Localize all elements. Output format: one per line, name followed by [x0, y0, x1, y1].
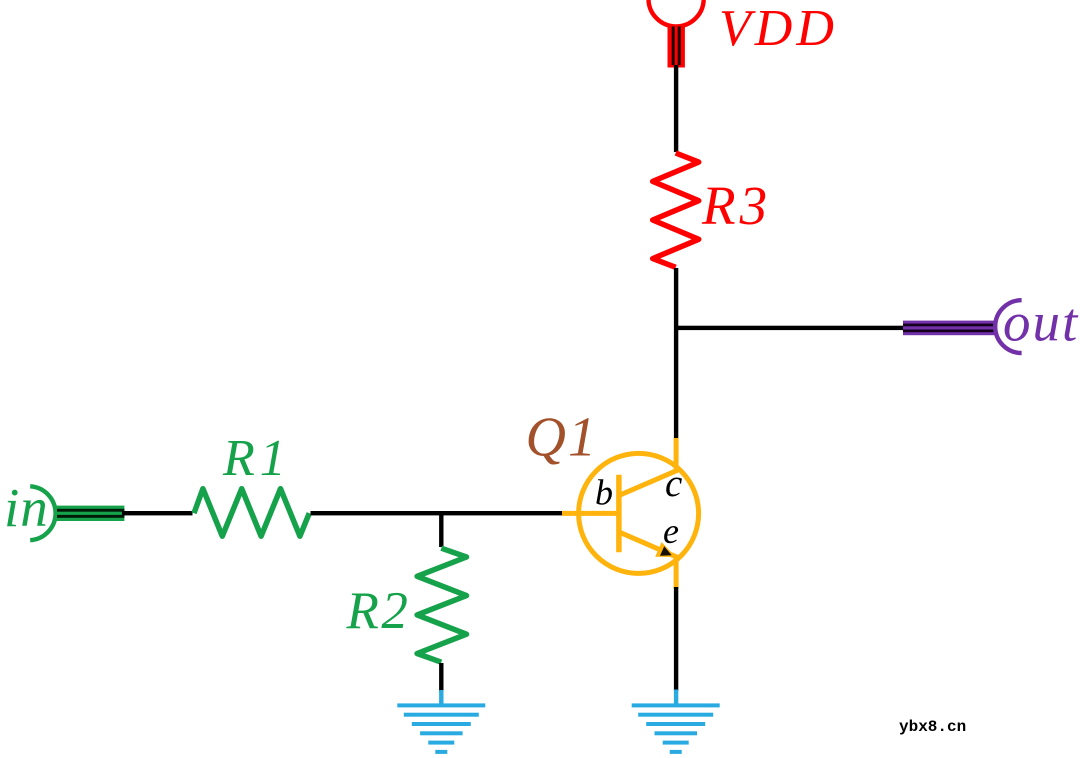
wire R2 to ground — [439, 663, 443, 692]
transistor Q1 — [562, 438, 699, 589]
svg-text:out: out — [1003, 292, 1079, 353]
emitter arrow (amber head) — [655, 542, 676, 557]
resistor R2 — [417, 548, 466, 662]
svg-text:VDD: VDD — [719, 0, 838, 57]
svg-text:in: in — [4, 477, 49, 538]
svg-text:c: c — [665, 462, 682, 505]
wire VDD to R3 — [674, 65, 678, 152]
wire port-in to R1 — [122, 511, 193, 515]
port VDD — [649, 0, 704, 68]
svg-text:R3: R3 — [701, 175, 771, 236]
svg-text:R1: R1 — [222, 430, 291, 487]
emitter arrow (black inner) — [660, 546, 672, 556]
resistor R3 — [653, 153, 699, 267]
wire out horizontal — [674, 326, 904, 330]
port out — [903, 300, 1022, 353]
port in — [30, 486, 124, 540]
wire R3 to collector node — [674, 268, 678, 440]
wire R1 to base (through node at R2 tap) — [311, 511, 564, 515]
resistor R1 — [194, 489, 309, 537]
svg-text:R2: R2 — [346, 582, 411, 640]
ground (left) — [397, 690, 485, 754]
svg-text:ybx8.cn: ybx8.cn — [899, 718, 966, 736]
wire emitter to ground — [674, 587, 678, 691]
wire node to R2 — [439, 512, 443, 547]
ground (right) — [632, 690, 720, 754]
svg-text:Q1: Q1 — [526, 407, 598, 469]
svg-text:e: e — [663, 511, 679, 551]
svg-text:b: b — [595, 473, 613, 513]
